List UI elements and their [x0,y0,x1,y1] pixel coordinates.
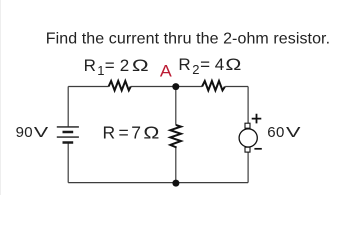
svg-text:A: A [160,62,173,81]
svg-text:60V: 60V [267,124,300,141]
svg-text:Find the current thru the 2-oh: Find the current thru the 2-ohm resistor… [46,30,330,47]
svg-text:R2=4Ω: R2=4Ω [178,55,241,77]
svg-text:R=7Ω: R=7Ω [103,122,160,142]
svg-text:R1=2Ω: R1=2Ω [84,56,149,78]
svg-text:90V: 90V [16,124,49,141]
